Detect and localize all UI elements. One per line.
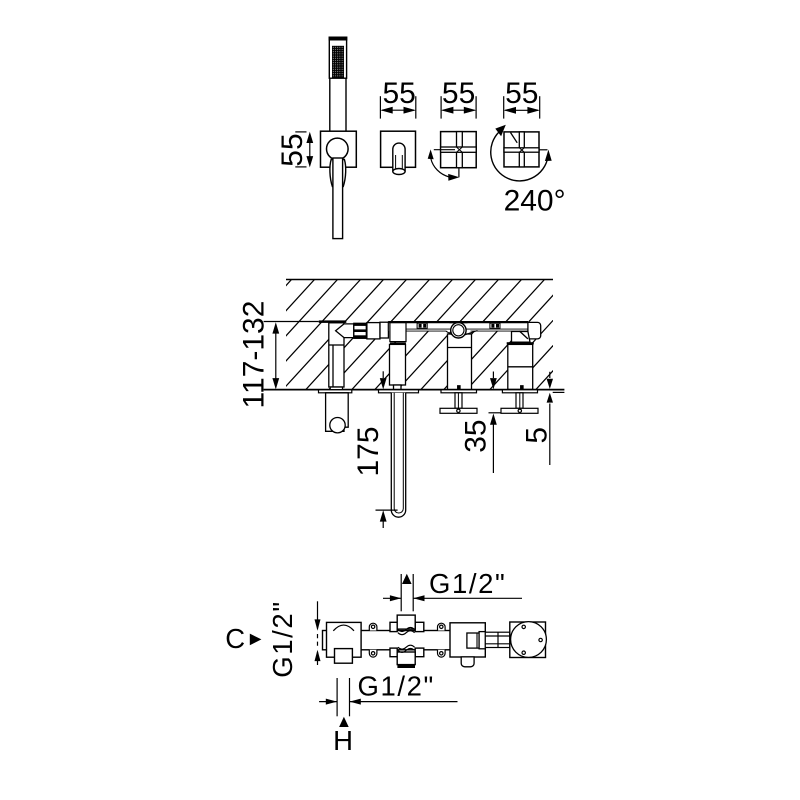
dimension 55 (mixer) — [504, 77, 540, 119]
escutcheon station 2 — [379, 390, 419, 393]
diverter cross handle — [441, 132, 477, 168]
dimension 55 (bracket height) — [276, 132, 313, 168]
svg-text:G1/2": G1/2" — [429, 568, 506, 599]
dimension 35 (handle height) — [460, 372, 501, 474]
cartridge circle — [511, 622, 547, 658]
holder clip — [330, 160, 346, 187]
rail fixing clips — [417, 323, 427, 328]
dimension 175 (spout projection) — [352, 371, 398, 528]
dimension 117-132 — [238, 301, 319, 409]
dimension 55 (diverter) — [441, 77, 476, 119]
diverter cross handle side view — [440, 393, 477, 414]
station 1: shower outlet body in wall — [329, 322, 389, 390]
left foot — [335, 649, 353, 664]
svg-text:55: 55 — [442, 77, 475, 110]
svg-text:55: 55 — [383, 77, 416, 110]
inlet dome — [333, 625, 354, 631]
mixer 240 deg rotation arc — [539, 149, 548, 151]
wall face line — [264, 389, 565, 391]
H marker — [339, 717, 349, 727]
svg-text:H: H — [333, 725, 354, 756]
fixing lug pair 2 — [438, 623, 446, 657]
svg-text:35: 35 — [460, 419, 493, 452]
station 4: mixer valve body — [507, 322, 541, 389]
valve socket — [467, 633, 479, 648]
diverter square plate — [441, 132, 477, 168]
shower elbow — [336, 324, 354, 338]
mixer handle index mark — [511, 133, 518, 143]
connector tube — [485, 632, 510, 647]
station 2: spout supply tee — [390, 323, 407, 390]
hand shower spray face — [332, 46, 344, 78]
diverter rotation arrow — [431, 150, 459, 178]
valve body bar — [323, 631, 485, 650]
mounting rail — [388, 321, 528, 331]
pipe break squiggles — [398, 628, 415, 653]
escutcheon station 1 — [319, 390, 352, 393]
svg-text:G1/2": G1/2" — [358, 671, 435, 702]
svg-text:G1/2": G1/2" — [267, 600, 298, 677]
station 1 top plate — [319, 320, 347, 323]
dimension 5 (escutcheon depth) — [521, 372, 554, 465]
ribbed connector — [354, 323, 367, 338]
svg-text:175: 175 — [352, 426, 385, 476]
fixing lug pair 1 — [369, 623, 377, 657]
shower holder side view — [326, 393, 349, 432]
spout wall plate — [381, 131, 416, 167]
bath spout side view — [391, 393, 405, 517]
wall top edge — [286, 279, 553, 281]
mixer cartridge square plate — [510, 622, 546, 658]
right valve block — [450, 623, 485, 657]
wall bracket plate — [321, 131, 357, 167]
mixer square plate — [504, 132, 539, 167]
hand shower head — [329, 37, 346, 78]
escutcheon station 4 — [502, 390, 537, 393]
svg-text:5: 5 — [521, 427, 554, 444]
escutcheon face extension line — [553, 391, 565, 393]
center shower outlet fitting — [390, 615, 424, 667]
hand shower tube — [330, 78, 346, 137]
left inlet block — [327, 622, 362, 657]
escutcheon station 3 — [441, 390, 477, 393]
svg-text:55: 55 — [505, 77, 538, 110]
svg-text:240°: 240° — [504, 185, 566, 218]
dimension G1/2 bottom (H inlet) — [319, 671, 457, 717]
station 3: diverter valve body — [448, 334, 472, 389]
dimension G1/2 top — [383, 568, 522, 611]
svg-text:117-132: 117-132 — [238, 301, 271, 409]
connector sleeve — [367, 323, 380, 339]
hand shower handle — [333, 158, 343, 239]
dimension G1/2 left (C inlet) — [267, 600, 321, 677]
rail grommet — [446, 322, 478, 338]
bracket knob circle — [327, 138, 349, 160]
svg-text:55: 55 — [276, 133, 309, 166]
mixer cross handle — [504, 132, 539, 167]
spout nozzle — [393, 143, 405, 171]
svg-text:C: C — [225, 623, 246, 654]
right foot — [461, 657, 474, 667]
dimension 55 (spout plate) — [380, 77, 416, 119]
mixer cross handle side view — [501, 393, 538, 414]
